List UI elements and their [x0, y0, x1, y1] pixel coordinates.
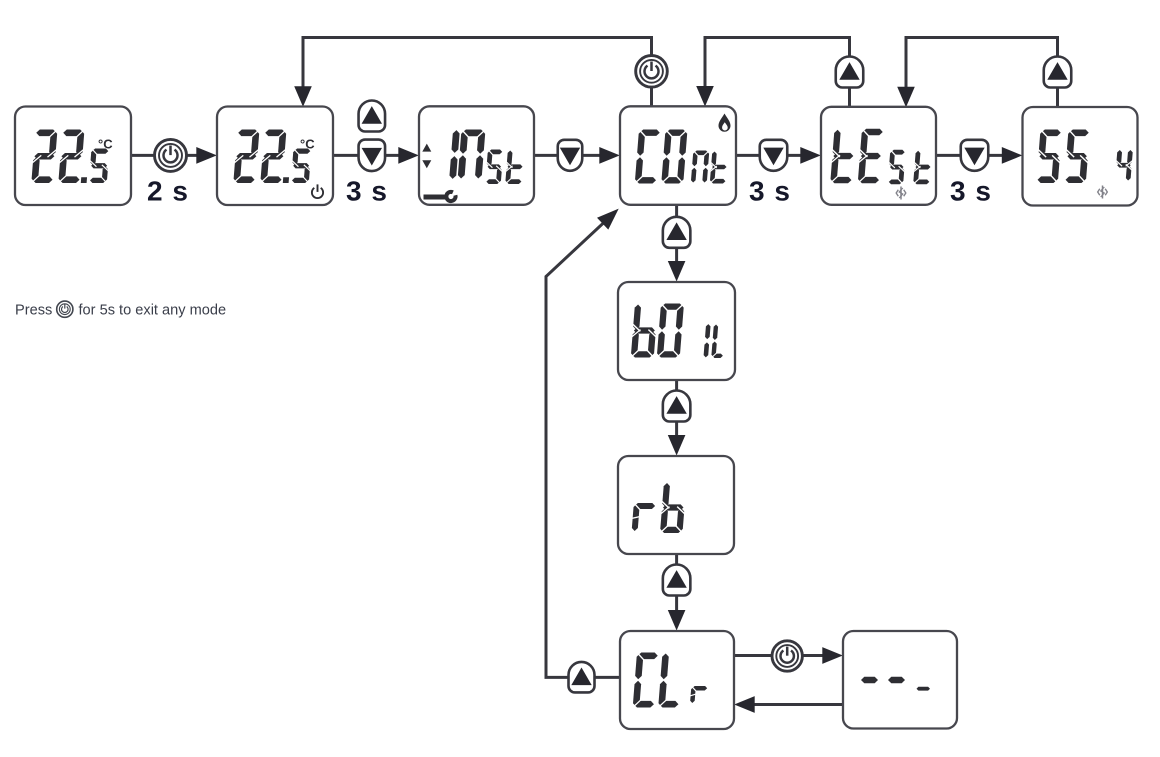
svg-text:3 s: 3 s [950, 176, 992, 207]
down button icon on wire COnt-tESt [760, 140, 788, 171]
wire: rb down to CLr [675, 554, 678, 611]
LCD digits box B5: tESt with antenna icon [829, 128, 934, 200]
arrowhead into COnt [599, 147, 620, 164]
display box B4: COnt continuous mode [620, 106, 736, 205]
arrowhead down into CLr [668, 610, 686, 631]
LCD digits box B2: 22.5 degC with standby icon [232, 129, 323, 199]
wire: COnt to tESt [736, 154, 803, 157]
wire: COnt down to bOIL [675, 205, 678, 262]
svg-text:2 s: 2 s [147, 176, 189, 207]
up button icon above wire B2-B3 [359, 101, 386, 132]
display box B7: bOIL boiler mode [618, 282, 735, 380]
arrowhead down into bOIL [668, 261, 686, 282]
svg-text:3 s: 3 s [346, 176, 388, 207]
arrowhead down into box2 top [294, 86, 312, 107]
up button icon between rb and CLr [663, 564, 691, 595]
wire: CLr to clear-confirm box [734, 654, 824, 657]
LCD digits box B4: COnt with flame icon [634, 114, 731, 185]
svg-text:°C: °C [98, 137, 113, 152]
wire: top feedback COnt to box2 [303, 38, 652, 108]
display box B9: CLr clear mode [620, 631, 734, 729]
label 3 s under COnt-tESt button [749, 176, 791, 207]
LCD digits box B8: rb [630, 483, 687, 534]
arrowhead left into CLr [734, 696, 755, 713]
arrowhead into tESt [800, 147, 821, 164]
LCD digits box B9: CLr [632, 652, 710, 709]
wire: box1 to box2 [131, 154, 199, 157]
down button icon on wire tESt-55.4 [961, 140, 989, 171]
arrowhead into box2 [196, 147, 217, 164]
power button icon on CLr to confirm wire [772, 641, 802, 671]
wire: top feedback 55.4 to tESt [906, 38, 1058, 109]
label 3 s under B2-B3 buttons [346, 176, 388, 207]
label 3 s under tESt-55.4 button [950, 176, 992, 207]
wire: bOIL down to rb [675, 380, 678, 436]
up button icon on tESt feedback line [836, 57, 864, 88]
down button icon on wire B3-COnt [558, 140, 583, 171]
arrowhead into box3 [398, 147, 419, 164]
svg-text:for 5s to exit any mode: for 5s to exit any mode [79, 303, 227, 319]
down button icon on wire B2-B3 [359, 140, 386, 172]
wire: tESt to 55.4 [936, 154, 1005, 157]
LCD digits box B3: INst with adjust arrows and wrench icon [422, 129, 525, 202]
footnote: Press power for 5s to exit any mode [15, 301, 226, 318]
wire: top feedback tESt to COnt [705, 38, 850, 109]
up button icon between COnt and bOIL [663, 217, 691, 248]
label 2 s [147, 176, 189, 207]
display box B8: rb rebind mode [618, 456, 734, 554]
arrowhead down into COnt top [696, 86, 714, 107]
LCD digits box B1: 22.5 degC [30, 129, 113, 185]
arrowhead down into rb [668, 435, 686, 456]
LCD digits box B10: dashes [861, 677, 930, 691]
wire: box3 to COnt [534, 154, 602, 157]
LCD digits box B6: 55.4 with antenna icon [1035, 129, 1135, 199]
svg-text:Press: Press [15, 303, 52, 319]
svg-text:°C: °C [300, 137, 315, 152]
arrowhead into 55.4 [1002, 147, 1023, 164]
display box B5: tESt mode [821, 107, 936, 205]
wire: box2 to box3 [333, 154, 401, 157]
power button icon on top feedback line [636, 56, 668, 88]
display box B3: INst installer mode [419, 106, 534, 205]
display box B2: 22.5degC standby [217, 107, 333, 206]
up button icon on CLr return path [569, 662, 595, 692]
power button icon between B1 and B2 [155, 139, 187, 171]
display box B1: home screen 22.5degC [15, 107, 131, 206]
LCD digits box B7: bOIL [630, 303, 727, 360]
arrowhead diagonal into COnt bottom-left [597, 209, 619, 230]
svg-text:3 s: 3 s [749, 176, 791, 207]
arrowhead down into tESt top [897, 87, 915, 108]
up button icon on 55.4 feedback line [1044, 57, 1072, 88]
arrowhead into clear-confirm box [822, 647, 843, 664]
wire: clear-confirm box back to CLr [753, 703, 843, 706]
wire: CLr return path to COnt [546, 222, 620, 678]
display box B10: clear confirm dashes [843, 631, 957, 729]
up button icon between bOIL and rb [663, 391, 691, 422]
display box B6: 55.4 reading [1023, 107, 1138, 206]
